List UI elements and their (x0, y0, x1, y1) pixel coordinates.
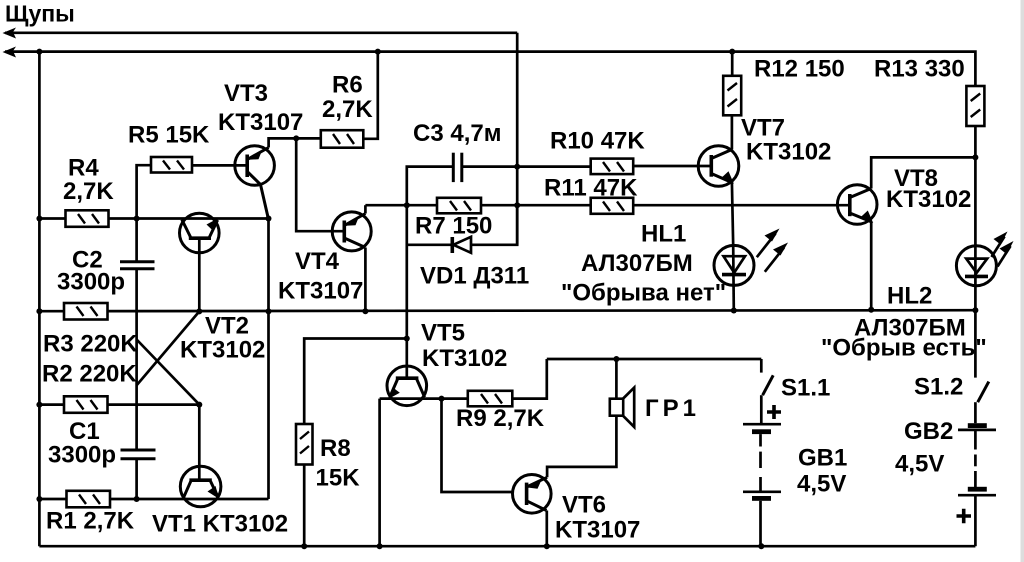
svg-text:VD1 Д311: VD1 Д311 (420, 263, 529, 290)
junction R1 row / C1 column (134, 496, 140, 502)
wire VT3 emitter to R6 node (269, 138, 321, 147)
svg-text:3300p: 3300p (57, 269, 125, 296)
wire R2 row y=404.6 (39, 403, 199, 406)
wire R9 right up to speaker rail (512, 359, 547, 399)
transistor VT4 KT3107 (278, 212, 371, 305)
wire S1.2 to GB2 (974, 402, 977, 423)
wire R1 row y=499 (39, 498, 268, 501)
svg-text:4,5V: 4,5V (895, 451, 944, 478)
svg-text:R1 2,7K: R1 2,7K (46, 508, 135, 535)
wire R9 row y=398.6 (380, 397, 468, 400)
wire R7/R11 row y=205.3 (365, 204, 849, 207)
wire probe-B rail right bend down to R13 (972, 52, 975, 86)
wire VT5 emitter drop to ground rail (378, 399, 381, 547)
resistor R11 (544, 175, 638, 214)
resistor R12 (723, 56, 845, 116)
wire VT6 collector to ground rail (545, 511, 548, 547)
transistor VT1 KT3102 (152, 405, 288, 538)
resistor R13 (874, 56, 984, 127)
svg-text:R6: R6 (332, 72, 363, 99)
capacitor C2 (57, 247, 155, 296)
svg-text:KT3102: KT3102 (422, 345, 507, 372)
junction R2 row end / VT1 base / cross-couple (196, 402, 202, 408)
svg-text:VT5: VT5 (421, 320, 465, 347)
svg-text:R13 330: R13 330 (874, 56, 965, 83)
wire R6 right to probe-B rail (363, 52, 378, 139)
transistor VT6 KT3107 (513, 475, 641, 544)
wire VT5 base node to R8 (304, 339, 407, 425)
battery GB2 4,5V (895, 418, 996, 523)
LED HL2 АЛ307БМ (821, 232, 1014, 362)
wire probe A (top, arrow left) (3, 28, 518, 39)
wire R5 to VT3 base (192, 164, 247, 167)
wire VT8 collector up and right to R13 column (871, 157, 975, 188)
svg-text:R12 150: R12 150 (754, 56, 845, 83)
svg-text:4,5V: 4,5V (797, 471, 846, 498)
svg-text:KT3102: KT3102 (886, 186, 971, 213)
wire VT4 base from R6 node (296, 138, 344, 231)
junction long row / VT1 riser (266, 308, 272, 314)
svg-text:ГР1: ГР1 (645, 395, 700, 422)
resistor R2 (42, 361, 137, 413)
junction long row / VT8 emitter (868, 307, 874, 313)
wire C2 column upper (135, 219, 138, 262)
junction rail/probe-B (36, 49, 42, 55)
wire VT6 emitter to speaker bottom (547, 416, 616, 478)
svg-text:VT2: VT2 (205, 313, 249, 340)
junction long row / HL1 (731, 308, 737, 314)
capacitor C1 (48, 418, 156, 469)
junction ground rail / GB1 (758, 543, 764, 549)
wire long row y=311.2 (Обрыва нет line) (39, 310, 975, 311)
junction R9 row / VT6 base branch (439, 396, 445, 402)
transistor VT5 KT3102 (387, 320, 507, 406)
wire probe B (second, arrow left) (3, 47, 973, 58)
resistor R10 (550, 128, 645, 175)
wire R5 left bend (137, 165, 151, 218)
battery GB1 4,5V (743, 405, 847, 501)
diode VD1 Д311 (420, 237, 529, 290)
transistor VT7 KT3102 (698, 115, 831, 187)
wire R12 top to probe-B rail (731, 52, 734, 76)
wire VD1 column down to VT5 base node (405, 205, 408, 338)
svg-text:"Обрыв есть": "Обрыв есть" (821, 335, 987, 362)
junction long row / HL2 / GB2 column (972, 307, 978, 313)
svg-text:АЛ307БМ: АЛ307БМ (581, 250, 693, 277)
wire VT8 emitter down to long row (870, 222, 873, 310)
wire VD1 left lead (407, 243, 453, 246)
speaker ГР1 (610, 388, 700, 427)
wire VT7 emitter down to HL1 (732, 183, 733, 246)
wire R10 right to VT7 base (633, 165, 711, 168)
junction ground rail / VT6 (544, 543, 550, 549)
wire R8 bottom to ground rail (303, 465, 306, 547)
svg-text:R10 47K: R10 47K (550, 128, 645, 155)
svg-text:VT7: VT7 (741, 115, 785, 142)
wire VT4 emitter up to R7 row (364, 205, 367, 213)
svg-text:R9 2,7K: R9 2,7K (456, 405, 545, 432)
wire C3 right lead (462, 165, 517, 168)
wire VT7 collector to R12 (731, 115, 734, 149)
junction rail/R2 row (36, 402, 42, 408)
wire R13 bottom to HL2 (974, 126, 977, 246)
transistor VT8 KT3102 (837, 165, 971, 224)
svg-text:R3 220K: R3 220K (43, 331, 138, 358)
junction VT5 base node (404, 336, 410, 342)
wire probe-A vertical drop x=517 (516, 33, 519, 245)
junction R4 row end / VT3 collector (266, 216, 272, 222)
junction probe-B / R6 branch (375, 49, 381, 55)
junction speaker rail / speaker top (613, 356, 619, 362)
svg-text:R11 47K: R11 47K (544, 175, 638, 202)
junction rail/R3 row (36, 308, 42, 314)
resistor R3 (43, 303, 138, 358)
svg-text:3300p: 3300p (48, 442, 116, 469)
wire speaker top lead (615, 359, 618, 399)
svg-text:VT4: VT4 (295, 248, 340, 275)
svg-text:2,7K: 2,7K (322, 96, 373, 123)
svg-text:S1.2: S1.2 (914, 374, 963, 401)
resistor R8 (296, 424, 360, 492)
svg-text:GB1: GB1 (798, 445, 847, 472)
junction rail/R1 row (36, 496, 42, 502)
junction rail/R4 row (36, 216, 42, 222)
resistor R5 (128, 122, 210, 173)
switch S1.1 (761, 359, 830, 402)
junction C3 right / probe-A column (514, 164, 520, 170)
svg-text:C3 4,7м: C3 4,7м (413, 120, 501, 147)
junction R7 left / C3-VD1 column (404, 202, 410, 208)
wire VT4 collector down to long row (364, 248, 367, 312)
wire VD1 right lead to probe-A column (471, 205, 517, 245)
resistor R7 (415, 198, 492, 240)
resistor R1 (46, 491, 135, 535)
wire VT1 emitter riser x=268.5 (267, 219, 270, 500)
svg-text:VT6: VT6 (562, 492, 606, 519)
svg-text:KT3107: KT3107 (555, 517, 640, 544)
wire C1 column lower (135, 459, 138, 499)
junction R4 row / R5-C2 branch (134, 216, 140, 222)
svg-text:HL1: HL1 (641, 221, 686, 248)
svg-text:VT1 KT3102: VT1 KT3102 (152, 511, 288, 538)
LED HL1 АЛ307БМ (561, 221, 788, 311)
junction probe-B / R12 (729, 49, 735, 55)
svg-text:"Обрыва нет": "Обрыва нет" (561, 280, 726, 307)
wire speaker rail y=359 (547, 358, 762, 361)
junction long row / VT4 collector (362, 308, 368, 314)
junction R7 right / probe-A column (514, 202, 520, 208)
resistor R4 (63, 155, 114, 227)
svg-text:KT3107: KT3107 (278, 278, 363, 305)
svg-text:R5 15K: R5 15K (128, 122, 210, 149)
wire S1.1 to GB1 (760, 395, 763, 424)
svg-text:KT3102: KT3102 (746, 139, 831, 166)
resistor R6 (321, 72, 374, 148)
wire GB1 bottom to ground rail (759, 501, 762, 546)
transistor VT3 KT3107 (218, 80, 303, 219)
junction R6-left / VT3 / VT4-base (293, 135, 299, 141)
svg-text:S1.1: S1.1 (781, 375, 830, 402)
wire C3 left lead (407, 167, 454, 206)
wire R10 row (517, 165, 591, 168)
svg-text:KT3102: KT3102 (180, 337, 265, 364)
switch S1.2 (914, 310, 989, 402)
svg-text:VT3: VT3 (224, 80, 268, 107)
wire left rail x=39.4 (38, 52, 41, 547)
svg-text:R7 150: R7 150 (415, 213, 492, 240)
svg-text:15K: 15K (316, 465, 361, 492)
wire GB2 bottom to ground rail corner (974, 496, 977, 546)
svg-text:KT3107: KT3107 (218, 109, 303, 136)
junction ground rail / VT5 emitter (377, 543, 383, 549)
junction R13 column / VT8 collector (972, 154, 978, 160)
svg-text:2,7K: 2,7K (63, 178, 114, 205)
wire C2 column lower (135, 269, 138, 450)
junction long row / VT2 base (196, 308, 202, 314)
transistor VT2 KT3102 (180, 213, 266, 363)
wire cross-couple D1 (VT2 emitter dot to C2 column) (137, 311, 200, 385)
svg-text:Щупы: Щупы (5, 1, 75, 27)
wire R4 row y=218.5 (39, 217, 268, 220)
edge scan strip (1021, 0, 1024, 562)
svg-text:HL2: HL2 (887, 283, 932, 310)
junction ground rail / R8 (301, 543, 307, 549)
svg-text:GB2: GB2 (904, 418, 953, 445)
wire ground rail y=546.2 (39, 545, 975, 548)
capacitor C3 (413, 120, 501, 182)
wire VT6 base branch (442, 399, 513, 492)
svg-text:R8: R8 (320, 435, 351, 462)
wire cross-couple D2 (C2 column to VT1 base dot) (137, 340, 200, 405)
svg-text:R2 220K: R2 220K (42, 361, 137, 388)
resistor R9 (456, 391, 545, 432)
